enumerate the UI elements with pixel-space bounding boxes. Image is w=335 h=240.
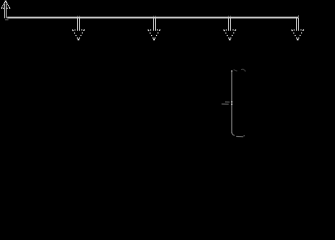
vertical wire (bracket stem) [231,71,233,134]
down arrow 3 (load current I3) [223,16,236,41]
wire: top horizontal bus [7,17,298,19]
down arrow 2 (load current I2) [148,16,161,41]
down arrow 1 (load current I1) [72,16,85,41]
down arrow 4 (load current I4) [291,15,304,40]
up arrow (current into bus) [1,1,10,20]
arrow into stem (equals marks) [222,102,230,104]
node label marks (top right of stem) [234,69,246,71]
wire: bottom hook of bracket [232,132,244,137]
